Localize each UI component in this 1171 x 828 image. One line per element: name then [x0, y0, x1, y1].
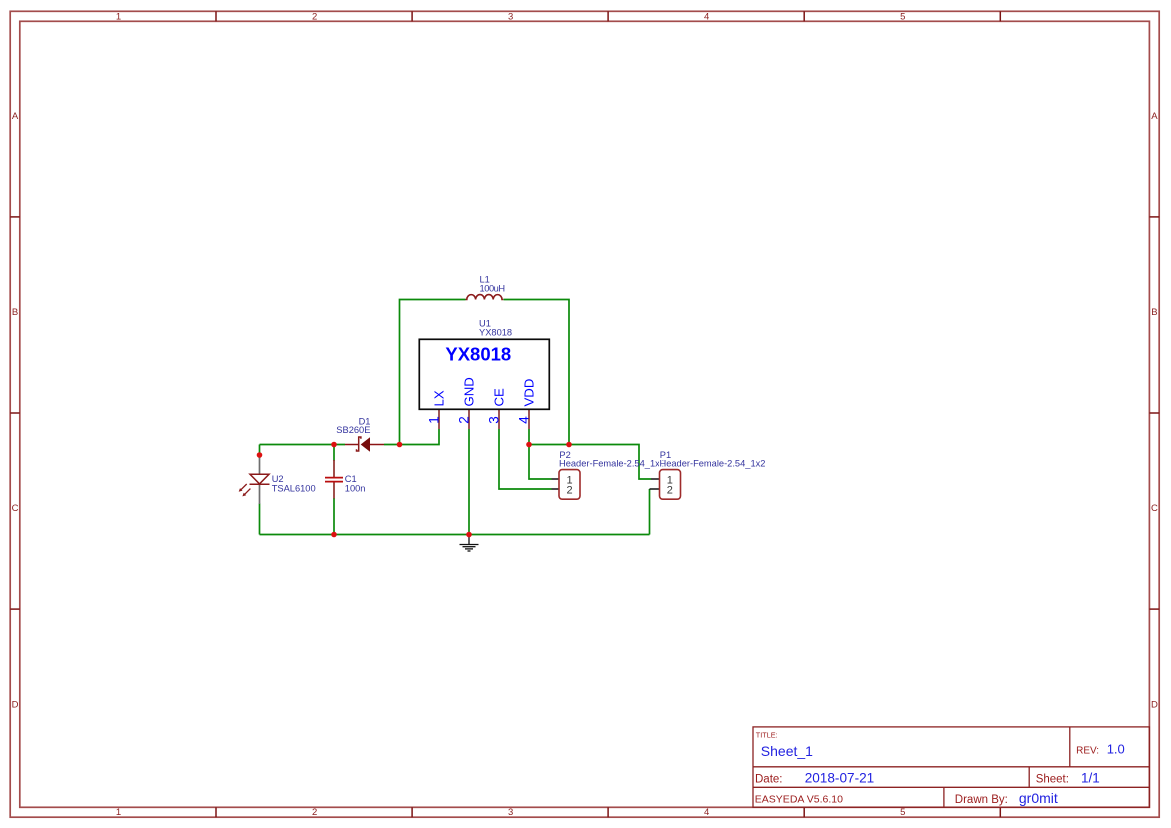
wire D1 cathode to LX pin — [384, 429, 439, 445]
wire LED bottom stub — [259, 504, 261, 535]
svg-text:YX8018: YX8018 — [445, 344, 511, 365]
pin 4 lead — [528, 410, 530, 430]
svg-text:2: 2 — [457, 416, 472, 424]
svg-text:3: 3 — [487, 416, 502, 424]
wire L1 right to VDD node — [504, 300, 570, 445]
LED arrow 1 — [241, 484, 247, 490]
wire C1 top stub — [333, 445, 335, 462]
pin 3 lead — [498, 410, 500, 430]
wire CE pin to P2 pin2 — [499, 429, 552, 489]
svg-text:1/1: 1/1 — [1081, 771, 1100, 786]
junction node L1 right — [566, 442, 572, 448]
svg-text:4: 4 — [704, 11, 709, 22]
inductor L1 — [466, 295, 504, 300]
wire VDD node to P1 pin1 — [529, 445, 651, 480]
svg-text:D: D — [12, 699, 19, 710]
svg-text:VDD: VDD — [521, 379, 536, 407]
svg-text:B: B — [12, 307, 18, 318]
wire LED top stub — [259, 445, 261, 459]
svg-text:5: 5 — [900, 807, 905, 818]
svg-text:YX8018: YX8018 — [479, 327, 512, 337]
svg-text:gr0mit: gr0mit — [1019, 790, 1058, 806]
svg-text:2: 2 — [566, 485, 572, 497]
svg-text:1: 1 — [427, 416, 442, 424]
svg-text:TSAL6100: TSAL6100 — [272, 483, 316, 493]
svg-text:SB260E: SB260E — [336, 425, 370, 435]
svg-text:5: 5 — [900, 11, 905, 22]
junction node L1 left — [397, 442, 403, 448]
svg-text:4: 4 — [517, 416, 532, 424]
svg-text:CE: CE — [491, 388, 506, 407]
svg-text:2: 2 — [312, 807, 317, 818]
svg-text:A: A — [1151, 111, 1158, 122]
svg-text:2: 2 — [312, 11, 317, 22]
wire C1 bottom stub — [333, 498, 335, 535]
svg-text:LX: LX — [431, 390, 446, 406]
header P2 — [552, 470, 581, 500]
svg-text:TITLE:: TITLE: — [756, 731, 778, 740]
wire ground bus bottom — [260, 534, 650, 536]
svg-text:Date:: Date: — [755, 773, 783, 785]
capacitor C1 — [325, 478, 343, 482]
svg-text:B: B — [1151, 307, 1157, 318]
svg-text:Sheet_1: Sheet_1 — [761, 743, 813, 759]
svg-text:GND: GND — [461, 377, 476, 406]
diode D1 — [345, 437, 384, 452]
svg-text:C: C — [1151, 503, 1158, 514]
svg-text:1.0: 1.0 — [1107, 742, 1125, 757]
svg-text:3: 3 — [508, 11, 513, 22]
pin 2 lead — [468, 410, 470, 430]
wire VDD node to P2 pin1 — [529, 445, 552, 480]
svg-text:C: C — [12, 503, 19, 514]
capacitor C1 bottom lead — [333, 482, 335, 499]
LED arrow 2 — [244, 489, 250, 495]
svg-text:EASYEDA V5.6.10: EASYEDA V5.6.10 — [755, 793, 843, 805]
svg-text:Sheet:: Sheet: — [1036, 773, 1069, 785]
svg-text:Drawn By:: Drawn By: — [955, 794, 1008, 806]
ground symbol — [460, 535, 479, 551]
wire P1 pin2 down to ground bus — [649, 489, 651, 535]
wire VDD pin down — [528, 429, 530, 445]
svg-text:Header-Female-2.54_1x2: Header-Female-2.54_1x2 — [660, 459, 766, 469]
LED U2 — [239, 455, 270, 504]
svg-text:Header-Female-2.54_1x2: Header-Female-2.54_1x2 — [559, 459, 665, 469]
pin 1 lead — [438, 410, 440, 430]
header P1 — [650, 470, 681, 500]
svg-text:1: 1 — [116, 11, 121, 22]
capacitor C1 top lead — [333, 460, 335, 477]
wire GND pin down — [468, 429, 470, 535]
junction node LED anode — [257, 452, 263, 458]
wire LED top to D1 anode — [260, 444, 346, 446]
junction node VDD pin — [526, 442, 532, 448]
svg-text:3: 3 — [508, 807, 513, 818]
svg-text:D: D — [1151, 699, 1158, 710]
svg-text:100n: 100n — [345, 483, 366, 493]
svg-text:2: 2 — [667, 485, 673, 497]
svg-text:2018-07-21: 2018-07-21 — [805, 770, 875, 785]
IC U1 body — [419, 339, 549, 409]
junction node ground — [466, 532, 472, 538]
wire L1 left vertical — [400, 300, 466, 445]
svg-text:A: A — [12, 111, 19, 122]
svg-text:1: 1 — [116, 807, 121, 818]
svg-text:REV:: REV: — [1076, 746, 1099, 757]
junction node C1 top — [331, 442, 337, 448]
svg-text:4: 4 — [704, 807, 709, 818]
svg-text:100uH: 100uH — [480, 283, 505, 293]
junction node C1 bottom — [331, 532, 337, 538]
